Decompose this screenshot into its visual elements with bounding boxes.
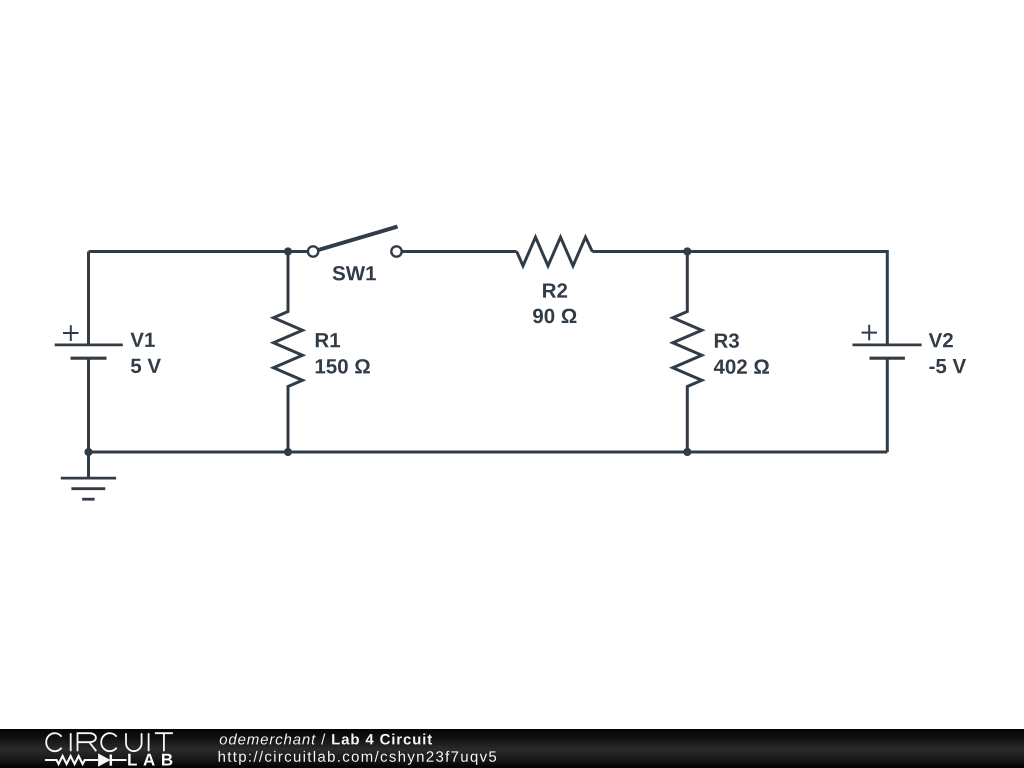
logo resistor zigzag and wire xyxy=(45,756,127,764)
wire: V1 top corner to R1 top node to switch left terminal xyxy=(89,250,314,253)
resistor R3 with leads xyxy=(673,252,702,453)
battery V2 negative plate xyxy=(870,357,905,360)
logo letter R xyxy=(78,733,97,751)
resistor R2 zigzag body xyxy=(517,237,593,266)
node dot: top of R3 xyxy=(683,247,691,255)
label V1 value xyxy=(131,359,161,373)
label R2 value xyxy=(533,309,576,324)
logo letter I2 xyxy=(148,733,150,751)
wire: R2 right lead to top-right corner down to V2 plus plate xyxy=(592,252,887,345)
label R3 designator xyxy=(715,333,739,348)
label R3 value xyxy=(714,359,769,374)
logo diode cathode bar xyxy=(110,755,113,766)
switch SW1 left terminal circle xyxy=(308,246,318,256)
wire: V2 bottom lead xyxy=(886,358,889,452)
label R1 designator xyxy=(316,333,340,347)
battery V1 positive plate xyxy=(55,343,123,346)
logo letter C xyxy=(46,733,61,751)
footer url line xyxy=(219,751,496,765)
node dot: bottom of R3 xyxy=(683,448,691,456)
footer title line xyxy=(220,734,432,745)
wire: V1 bottom lead xyxy=(87,358,90,452)
logo letter C2 xyxy=(101,733,116,751)
ground lead wire xyxy=(87,452,90,478)
battery V2 plus sign xyxy=(862,325,878,341)
ground bar 2 xyxy=(71,487,105,490)
logo letter U xyxy=(126,733,142,751)
battery V2 positive plate xyxy=(853,343,922,346)
label V2 value xyxy=(929,359,966,373)
label SW1 designator xyxy=(333,266,376,281)
wire: switch right terminal to R2 left lead xyxy=(397,250,517,253)
CircuitLab logo xyxy=(0,728,520,768)
label V1 designator xyxy=(130,333,154,347)
node dot: top of R1 xyxy=(284,247,292,255)
wire: V1 top lead (left vertical) xyxy=(87,252,90,345)
label R2 designator xyxy=(543,283,567,297)
footer bar xyxy=(0,729,1024,768)
logo diode triangle xyxy=(98,753,110,766)
label R1 value xyxy=(316,359,370,374)
logo letter I xyxy=(70,733,72,751)
battery V1 plus sign xyxy=(63,325,79,341)
battery V1 negative plate xyxy=(71,357,107,360)
node dot: ground junction xyxy=(84,448,92,456)
wire: bottom rail xyxy=(89,451,888,454)
switch SW1 right terminal circle xyxy=(391,246,401,256)
node dot: bottom of R1 xyxy=(284,448,292,456)
logo letter T xyxy=(155,733,173,751)
logo LAB text xyxy=(128,754,172,766)
label V2 designator xyxy=(929,333,953,347)
switch SW1 blade xyxy=(313,227,397,252)
resistor R1 with leads xyxy=(274,252,303,453)
ground bar 1 xyxy=(61,477,116,480)
ground bar 3 xyxy=(82,498,95,501)
